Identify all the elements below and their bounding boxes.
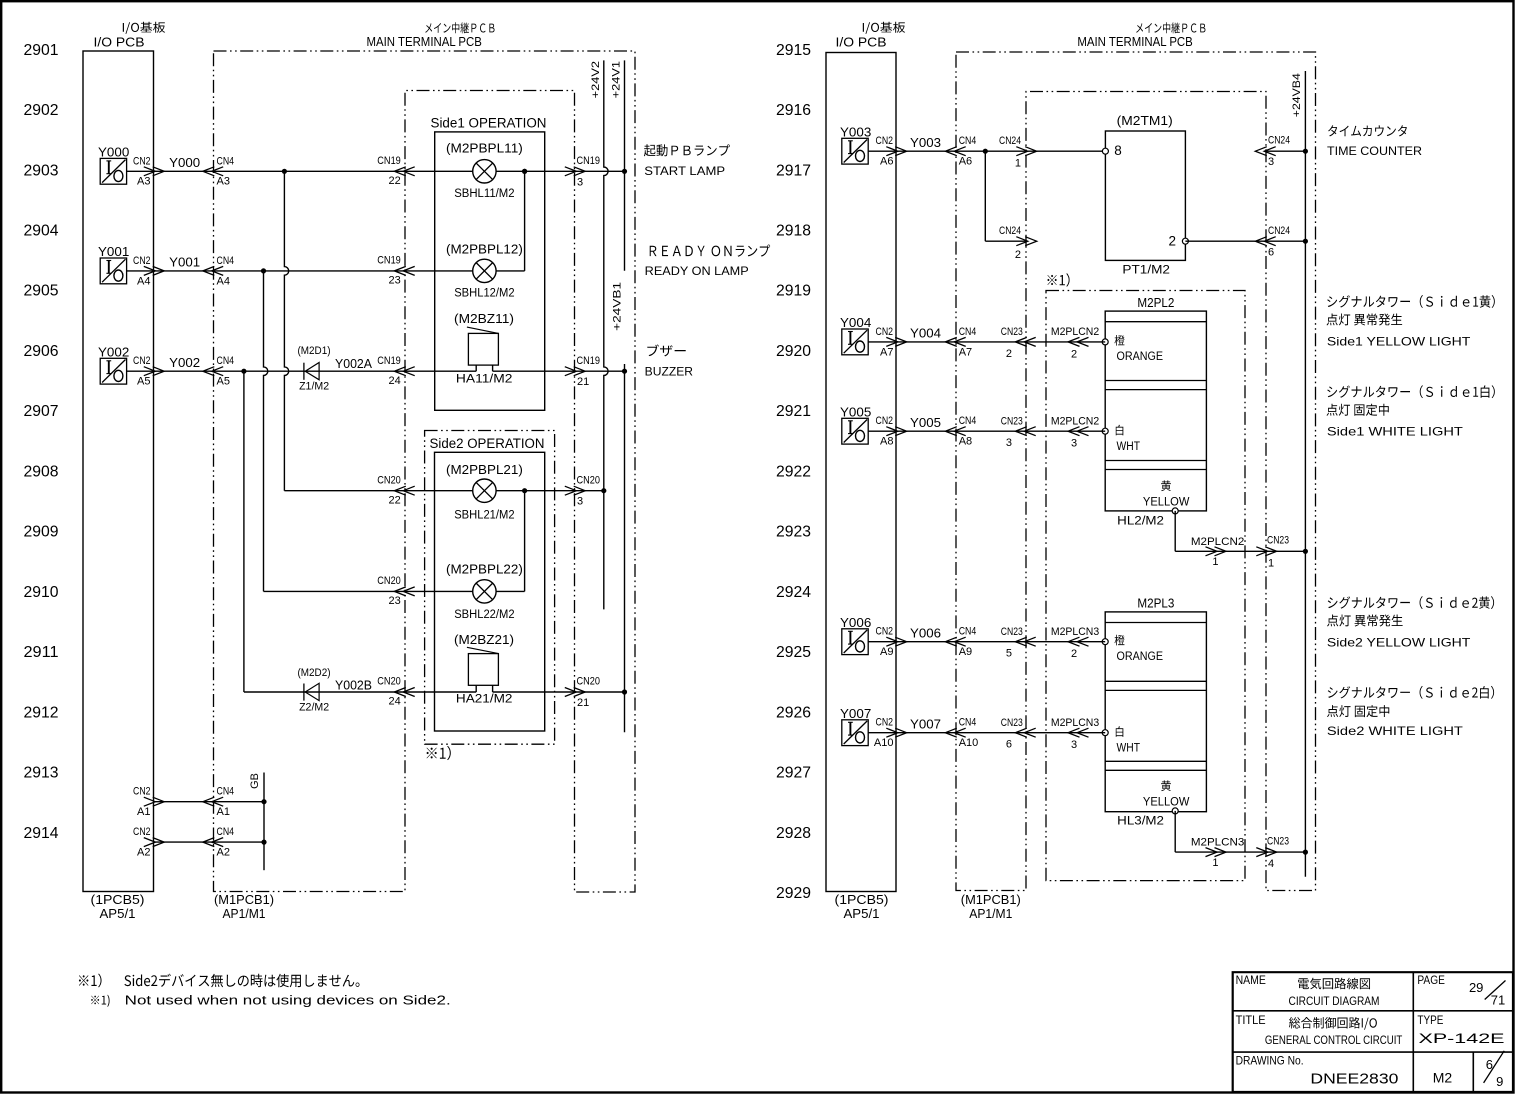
svg-text:DRAWING No.: DRAWING No. xyxy=(1236,1054,1304,1068)
svg-text:(M2D2): (M2D2) xyxy=(298,667,331,679)
svg-text:CN2: CN2 xyxy=(876,717,894,729)
svg-text:HL2/M2: HL2/M2 xyxy=(1117,516,1164,528)
connector CN20 pin 23 arrow xyxy=(394,587,414,596)
svg-text:CN4: CN4 xyxy=(959,326,977,338)
svg-text:Not used when not using device: Not used when not using devices on Side2… xyxy=(125,994,451,1008)
connector CN4 pin A2 arrow xyxy=(203,838,223,847)
svg-text:2908: 2908 xyxy=(24,463,59,480)
I/O module Y002 xyxy=(100,358,126,384)
white pin xyxy=(1102,730,1108,736)
connector CN19 pin 24 arrow xyxy=(394,367,414,376)
svg-text:Y004: Y004 xyxy=(840,315,871,330)
svg-text:2913: 2913 xyxy=(24,765,59,782)
connector CN2 pin A5 arrow xyxy=(144,367,164,376)
svg-text:A2: A2 xyxy=(137,847,150,859)
connector CN19 pin 22 arrow xyxy=(394,167,414,176)
svg-text:CN4: CN4 xyxy=(217,826,235,838)
svg-text:(1PCB5): (1PCB5) xyxy=(91,893,145,907)
svg-text:2923: 2923 xyxy=(776,524,811,541)
svg-text:2: 2 xyxy=(1015,249,1021,261)
svg-text:Y007: Y007 xyxy=(910,716,941,731)
svg-text:AP5/1: AP5/1 xyxy=(100,907,136,921)
connector CN4 pin A4 arrow xyxy=(203,266,223,275)
connector CN4 A8 xyxy=(945,427,965,436)
svg-text:2911: 2911 xyxy=(24,644,59,661)
main terminal PCB outline right (M1PCB1) xyxy=(956,52,1316,891)
wire CN20/23 row xyxy=(264,590,525,592)
svg-text:(M2TM1): (M2TM1) xyxy=(1117,114,1173,128)
svg-text:M2PLCN2: M2PLCN2 xyxy=(1191,536,1245,548)
svg-text:21: 21 xyxy=(577,376,589,388)
svg-text:Y002A: Y002A xyxy=(335,357,373,371)
svg-text:A6: A6 xyxy=(880,156,893,168)
svg-text:A4: A4 xyxy=(217,275,230,287)
svg-text:WHT: WHT xyxy=(1117,742,1141,754)
svg-text:CN19: CN19 xyxy=(577,355,601,367)
connector CN4 pin A3 arrow xyxy=(203,167,223,176)
svg-text:CN20: CN20 xyxy=(377,575,401,587)
wire xyxy=(868,732,1105,734)
svg-text:CN19: CN19 xyxy=(377,155,401,167)
svg-text:(M1PCB1): (M1PCB1) xyxy=(214,893,274,907)
connector CN20 pin 22 arrow xyxy=(394,486,414,495)
svg-text:Y000: Y000 xyxy=(98,145,129,160)
connector CN20 pin 24 arrow xyxy=(394,688,414,697)
connector CN2 A8 xyxy=(886,427,906,436)
connector M2PLCN2 pin 3 arrow xyxy=(1068,427,1089,436)
connector CN2 A6 xyxy=(886,147,906,156)
connector M2PLCN3 pin 3 arrow xyxy=(1068,728,1089,737)
svg-text:CN2: CN2 xyxy=(876,135,894,147)
svg-text:A3: A3 xyxy=(137,176,150,188)
connector CN4 A10 xyxy=(945,728,965,737)
svg-text:(M2D1): (M2D1) xyxy=(298,345,331,357)
connector CN23 pin 6 arrow xyxy=(1015,728,1035,737)
svg-text:6: 6 xyxy=(1006,739,1012,751)
svg-text:2929: 2929 xyxy=(776,885,811,902)
connector CN2 pin A1 arrow xyxy=(144,797,164,806)
svg-text:2921: 2921 xyxy=(776,403,811,420)
svg-text:A5: A5 xyxy=(137,376,150,388)
svg-text:Y005: Y005 xyxy=(910,415,941,430)
I/O module Y000 xyxy=(100,158,126,184)
svg-text:+24V2: +24V2 xyxy=(590,61,602,98)
+24V2 bus xyxy=(604,60,608,609)
svg-text:A6: A6 xyxy=(959,156,972,168)
svg-text:DNEE2830: DNEE2830 xyxy=(1310,1072,1398,1088)
connector CN4 pin A5 arrow xyxy=(203,367,223,376)
svg-text:2905: 2905 xyxy=(24,283,59,300)
svg-text:(M2PBPL22): (M2PBPL22) xyxy=(446,563,523,577)
svg-text:2901: 2901 xyxy=(24,42,59,59)
svg-text:2928: 2928 xyxy=(776,825,811,842)
svg-text:M2PLCN2: M2PLCN2 xyxy=(1051,326,1099,338)
wire Y000 row xyxy=(127,170,625,172)
svg-text:CN4: CN4 xyxy=(959,717,977,729)
svg-text:5: 5 xyxy=(1006,648,1012,660)
CN24/6 arrow xyxy=(1255,237,1275,246)
svg-text:CN2: CN2 xyxy=(133,155,151,167)
svg-text:2902: 2902 xyxy=(24,102,59,119)
svg-text:2920: 2920 xyxy=(776,343,811,360)
svg-text:2917: 2917 xyxy=(776,162,811,179)
svg-text:2904: 2904 xyxy=(24,222,59,239)
svg-text:Z2/M2: Z2/M2 xyxy=(299,701,329,713)
svg-text:ORANGE: ORANGE xyxy=(1117,351,1164,363)
svg-text:Y001: Y001 xyxy=(169,255,200,270)
svg-text:YELLOW: YELLOW xyxy=(1143,797,1190,809)
svg-text:(M2BZ11): (M2BZ11) xyxy=(454,312,514,326)
svg-text:Side1 YELLOW LIGHT: Side1 YELLOW LIGHT xyxy=(1327,335,1471,349)
svg-text:CN4: CN4 xyxy=(959,415,977,427)
+24VB1 bus xyxy=(624,364,626,732)
svg-text:22: 22 xyxy=(389,494,401,506)
connector CN2 A7 xyxy=(886,337,906,346)
svg-text:Y001: Y001 xyxy=(98,244,129,259)
I/O module Y006 xyxy=(842,629,868,655)
svg-text:YELLOW: YELLOW xyxy=(1143,497,1190,509)
wire xyxy=(868,341,1105,343)
svg-text:22: 22 xyxy=(389,175,401,187)
svg-text:CN24: CN24 xyxy=(999,135,1021,147)
svg-text:A3: A3 xyxy=(217,176,230,188)
svg-text:4: 4 xyxy=(1268,858,1274,870)
I/O module Y003 xyxy=(842,138,868,164)
svg-text:2914: 2914 xyxy=(24,825,59,842)
I/O module Y005 xyxy=(842,418,868,444)
svg-text:CN4: CN4 xyxy=(217,786,235,798)
svg-text:23: 23 xyxy=(389,595,401,607)
svg-text:Y002: Y002 xyxy=(98,344,129,359)
svg-text:3: 3 xyxy=(1071,739,1077,751)
Side2 OPERATION box xyxy=(435,452,545,731)
svg-text:AP5/1: AP5/1 xyxy=(844,907,880,921)
GB net line xyxy=(263,773,265,871)
note ref mark left xyxy=(427,746,451,760)
svg-text:CIRCUIT DIAGRAM: CIRCUIT DIAGRAM xyxy=(1289,994,1380,1008)
svg-text:SBHL22/M2: SBHL22/M2 xyxy=(454,609,514,621)
svg-text:2: 2 xyxy=(1006,348,1012,360)
svg-text:CN20: CN20 xyxy=(377,474,401,486)
svg-text:Side1 WHITE LIGHT: Side1 WHITE LIGHT xyxy=(1327,425,1464,439)
svg-text:2918: 2918 xyxy=(776,222,811,239)
svg-text:TIME COUNTER: TIME COUNTER xyxy=(1327,144,1422,158)
connector M2PLCN2 pin 2 arrow xyxy=(1068,337,1089,346)
diode Z1/M2 xyxy=(303,363,305,380)
pin 8 xyxy=(1102,148,1108,154)
svg-text:AP1/M1: AP1/M1 xyxy=(969,907,1012,921)
connector CN20 pin 3 arrow right xyxy=(565,486,585,495)
svg-text:Y006: Y006 xyxy=(840,615,871,630)
svg-text:(M2BZ21): (M2BZ21) xyxy=(454,633,514,647)
svg-text:A1: A1 xyxy=(217,806,230,818)
svg-text:ORANGE: ORANGE xyxy=(1117,651,1164,663)
svg-text:SBHL12/M2: SBHL12/M2 xyxy=(454,288,514,300)
svg-text:MAIN TERMINAL PCB: MAIN TERMINAL PCB xyxy=(367,35,482,49)
svg-text:CN2: CN2 xyxy=(133,786,151,798)
svg-text:A9: A9 xyxy=(880,646,893,658)
CN24/3 stub xyxy=(1264,150,1305,152)
title block xyxy=(1233,972,1513,1092)
wire CN20/22 row xyxy=(284,490,603,492)
svg-text:A2: A2 xyxy=(217,847,230,859)
svg-text:2927: 2927 xyxy=(776,765,811,782)
right annotation labels right half xyxy=(1328,125,1407,136)
I/O PCB box right (1PCB5) xyxy=(826,53,896,892)
junction verticals with hops xyxy=(282,169,287,174)
svg-text:1: 1 xyxy=(1212,857,1218,869)
svg-text:1: 1 xyxy=(1015,158,1021,170)
vertical SBHL22 to SBHL21 xyxy=(524,491,526,592)
svg-text:CN2: CN2 xyxy=(876,626,894,638)
svg-text:CN2: CN2 xyxy=(133,355,151,367)
svg-text:CN20: CN20 xyxy=(377,676,401,688)
right annotation labels left half xyxy=(644,144,730,156)
svg-text:(M1PCB1): (M1PCB1) xyxy=(961,893,1021,907)
svg-text:CN19: CN19 xyxy=(377,355,401,367)
svg-text:START LAMP: START LAMP xyxy=(644,164,725,178)
svg-text:3: 3 xyxy=(577,496,583,508)
svg-text:M2PL3: M2PL3 xyxy=(1137,597,1174,611)
svg-text:2903: 2903 xyxy=(24,162,59,179)
svg-text:M2PLCN3: M2PLCN3 xyxy=(1051,717,1099,729)
svg-text:HL3/M2: HL3/M2 xyxy=(1117,816,1164,828)
connector CN2 A9 xyxy=(886,637,906,646)
svg-text:SBHL21/M2: SBHL21/M2 xyxy=(454,509,514,521)
svg-text:A4: A4 xyxy=(137,275,150,287)
svg-text:2924: 2924 xyxy=(776,584,811,601)
svg-text:+24V1: +24V1 xyxy=(611,61,623,98)
svg-text:HA21/M2: HA21/M2 xyxy=(456,694,513,706)
svg-text:Y006: Y006 xyxy=(910,625,941,640)
svg-text:(1PCB5): (1PCB5) xyxy=(835,893,889,907)
svg-text:2922: 2922 xyxy=(776,463,811,480)
svg-text:8: 8 xyxy=(1114,143,1122,158)
wire CN20/24 row xyxy=(244,691,476,693)
footnote xyxy=(79,974,360,988)
svg-text:CN2: CN2 xyxy=(876,415,894,427)
svg-text:XP-142E: XP-142E xyxy=(1419,1030,1505,1046)
svg-text:CN4: CN4 xyxy=(959,626,977,638)
svg-text:WHT: WHT xyxy=(1117,441,1141,453)
connector CN4 A7 xyxy=(945,337,965,346)
svg-text:2: 2 xyxy=(1071,648,1077,660)
svg-text:Y000: Y000 xyxy=(169,155,200,170)
svg-text:2: 2 xyxy=(1168,234,1176,249)
svg-text:CN24: CN24 xyxy=(999,225,1021,237)
connector CN4 pin A1 arrow xyxy=(203,797,223,806)
svg-text:CN19: CN19 xyxy=(577,155,601,167)
yellow pin xyxy=(1161,480,1171,491)
GB wires rows A1/A2 xyxy=(154,801,265,803)
wire Y001 to Y000 vertical xyxy=(524,171,526,271)
svg-text:CN23: CN23 xyxy=(1267,535,1289,547)
svg-text:Y004: Y004 xyxy=(910,326,941,341)
svg-text:TITLE: TITLE xyxy=(1236,1015,1266,1027)
wire Y001 row xyxy=(127,270,525,272)
svg-text:2919: 2919 xyxy=(776,283,811,300)
svg-text:CN4: CN4 xyxy=(217,355,235,367)
svg-text:CN23: CN23 xyxy=(1001,416,1023,428)
+24V1 bus xyxy=(624,60,626,270)
svg-text:2906: 2906 xyxy=(24,343,59,360)
connector CN4 A9 xyxy=(945,637,965,646)
svg-text:24: 24 xyxy=(389,696,401,708)
svg-text:(M2PBPL12): (M2PBPL12) xyxy=(446,243,523,257)
svg-text:CN24: CN24 xyxy=(1268,225,1290,237)
svg-text:M2PLCN2: M2PLCN2 xyxy=(1051,416,1099,428)
svg-text:CN23: CN23 xyxy=(1267,835,1289,847)
connector CN2 pin A2 arrow xyxy=(144,838,164,847)
svg-text:I/O PCB: I/O PCB xyxy=(836,35,887,49)
svg-text:AP1/M1: AP1/M1 xyxy=(223,907,266,921)
svg-text:2: 2 xyxy=(1071,348,1077,360)
svg-text:+24VB1: +24VB1 xyxy=(611,282,623,331)
connector CN2 pin A4 arrow xyxy=(144,266,164,275)
svg-text:Z1/M2: Z1/M2 xyxy=(299,380,329,392)
svg-text:Side2 WHITE LIGHT: Side2 WHITE LIGHT xyxy=(1327,724,1464,738)
wire pin2 to CN24/6 xyxy=(1185,240,1305,242)
svg-text:A9: A9 xyxy=(959,646,972,658)
svg-text:+24VB4: +24VB4 xyxy=(1291,73,1303,117)
yellow lamp wire xyxy=(1174,811,1176,852)
svg-text:BUZZER: BUZZER xyxy=(645,364,694,378)
svg-text:Y002: Y002 xyxy=(169,355,200,370)
svg-text:Y003: Y003 xyxy=(840,124,871,139)
svg-text:29: 29 xyxy=(1469,980,1483,995)
svg-text:A10: A10 xyxy=(874,737,894,749)
svg-text:A8: A8 xyxy=(959,436,972,448)
Side2 OPERATION dash-dot box (opt) xyxy=(425,431,555,745)
svg-text:A7: A7 xyxy=(959,346,972,358)
svg-text:PT1/M2: PT1/M2 xyxy=(1122,264,1170,276)
yellow pin xyxy=(1161,780,1171,791)
svg-text:GB: GB xyxy=(249,773,261,789)
main terminal PCB outline (M1PCB1) xyxy=(214,51,636,892)
svg-text:(M2PBPL21): (M2PBPL21) xyxy=(446,463,523,477)
svg-text:A1: A1 xyxy=(137,806,150,818)
svg-text:3: 3 xyxy=(1268,156,1274,168)
connector CN23 pin 2 arrow xyxy=(1015,337,1035,346)
connector CN19 pin 21 arrow right xyxy=(565,367,585,376)
svg-text:MAIN TERMINAL PCB: MAIN TERMINAL PCB xyxy=(1077,35,1192,49)
svg-text:Y005: Y005 xyxy=(840,404,871,419)
svg-text:2912: 2912 xyxy=(24,704,59,721)
junction Y003 xyxy=(983,149,988,154)
svg-text:I/O PCB: I/O PCB xyxy=(94,35,145,49)
svg-text:NAME: NAME xyxy=(1236,975,1267,987)
svg-text:CN19: CN19 xyxy=(377,255,401,267)
svg-text:GENERAL CONTROL CIRCUIT: GENERAL CONTROL CIRCUIT xyxy=(1265,1033,1403,1047)
wire xyxy=(868,641,1105,643)
svg-text:CN4: CN4 xyxy=(217,155,235,167)
yellow lamp wire xyxy=(1174,511,1176,551)
orange pin xyxy=(1102,339,1108,345)
svg-text:READY ON LAMP: READY ON LAMP xyxy=(645,264,749,278)
svg-text:CN23: CN23 xyxy=(1001,326,1023,338)
I/O module Y004 xyxy=(842,329,868,355)
svg-text:M2PLCN3: M2PLCN3 xyxy=(1051,626,1099,638)
connector CN23 pin 3 arrow xyxy=(1015,427,1035,436)
svg-text:Side2 YELLOW LIGHT: Side2 YELLOW LIGHT xyxy=(1327,636,1471,650)
wire Y002 row xyxy=(127,370,477,372)
svg-text:6: 6 xyxy=(1268,247,1274,259)
svg-text:24: 24 xyxy=(389,375,401,387)
svg-text:2926: 2926 xyxy=(776,704,811,721)
Side1 OPERATION box xyxy=(435,132,545,410)
svg-text:Side1 OPERATION: Side1 OPERATION xyxy=(431,115,547,130)
connector M2PLCN3 pin 2 arrow xyxy=(1068,637,1089,646)
I/O module Y001 xyxy=(100,258,126,284)
svg-text:CN20: CN20 xyxy=(577,474,601,486)
connector CN20 pin 21 arrow right xyxy=(565,688,585,697)
orange pin xyxy=(1102,639,1108,645)
svg-text:SBHL11/M2: SBHL11/M2 xyxy=(454,188,514,200)
svg-text:CN2: CN2 xyxy=(876,326,894,338)
wire xyxy=(868,430,1105,432)
svg-text:Side2 OPERATION: Side2 OPERATION xyxy=(430,436,545,451)
white pin xyxy=(1102,428,1108,434)
svg-text:CN2: CN2 xyxy=(133,826,151,838)
CN24/2 stub xyxy=(985,240,1027,242)
pin 2 xyxy=(1182,238,1188,244)
svg-text:71: 71 xyxy=(1491,992,1505,1007)
svg-text:2925: 2925 xyxy=(776,644,811,661)
I/O PCB box (1PCB5) xyxy=(83,51,154,892)
connector CN4 A6 xyxy=(945,147,965,156)
CN24/1 arrow xyxy=(1016,147,1036,156)
svg-text:Y007: Y007 xyxy=(840,706,871,721)
svg-text:CN23: CN23 xyxy=(1001,717,1023,729)
connector CN19 pin 3 arrow right xyxy=(565,167,585,176)
svg-text:Y002B: Y002B xyxy=(335,678,372,692)
timer M2TM1 box xyxy=(1105,131,1185,260)
diode Z2/M2 xyxy=(303,684,305,701)
svg-text:HA11/M2: HA11/M2 xyxy=(456,374,513,386)
svg-text:23: 23 xyxy=(389,275,401,287)
svg-text:CN2: CN2 xyxy=(133,255,151,267)
connector CN2 A10 xyxy=(886,728,906,737)
svg-text:CN24: CN24 xyxy=(1268,135,1290,147)
svg-text:2909: 2909 xyxy=(24,524,59,541)
svg-text:2907: 2907 xyxy=(24,403,59,420)
svg-text:A7: A7 xyxy=(880,346,893,358)
svg-text:PAGE: PAGE xyxy=(1417,975,1445,987)
svg-text:A10: A10 xyxy=(959,737,979,749)
svg-text:(M2PBPL11): (M2PBPL11) xyxy=(446,141,523,155)
svg-text:3: 3 xyxy=(1006,437,1012,449)
svg-text:CN20: CN20 xyxy=(577,676,601,688)
svg-text:CN4: CN4 xyxy=(959,135,977,147)
svg-text:2910: 2910 xyxy=(24,584,59,601)
svg-text:M2PLCN3: M2PLCN3 xyxy=(1191,837,1245,849)
optional section dash-dot box (※1) xyxy=(1046,291,1245,881)
svg-text:M2: M2 xyxy=(1433,1070,1453,1086)
svg-text:Y003: Y003 xyxy=(910,135,941,150)
connector CN23 pin 5 arrow xyxy=(1015,637,1035,646)
wire Y003 row xyxy=(868,150,1105,152)
connector CN19 pin 23 arrow xyxy=(394,266,414,275)
svg-text:9: 9 xyxy=(1496,1074,1503,1089)
svg-text:TYPE: TYPE xyxy=(1417,1015,1443,1027)
svg-text:A8: A8 xyxy=(880,436,893,448)
svg-text:2916: 2916 xyxy=(776,102,811,119)
svg-text:CN4: CN4 xyxy=(217,255,235,267)
svg-text:2915: 2915 xyxy=(776,42,811,59)
svg-text:21: 21 xyxy=(577,697,589,709)
svg-text:1: 1 xyxy=(1212,556,1218,568)
svg-text:M2PL2: M2PL2 xyxy=(1137,296,1174,310)
